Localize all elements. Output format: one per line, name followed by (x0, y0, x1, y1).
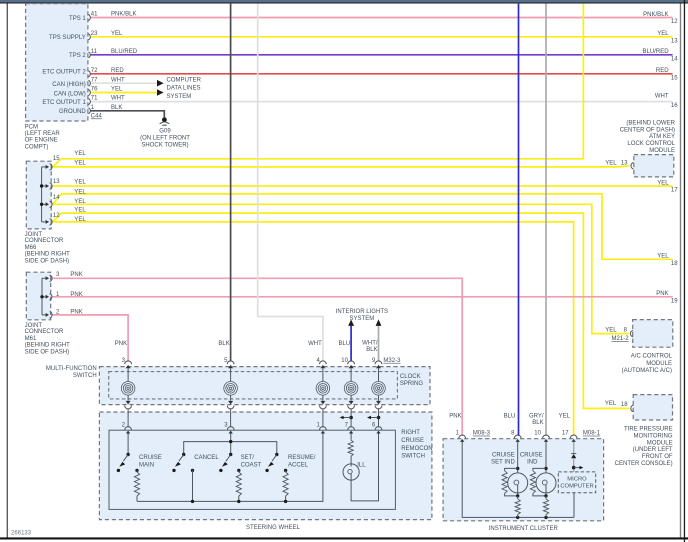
svg-text:YEL: YEL (74, 207, 86, 213)
svg-text:(AUTOMATIC A/C): (AUTOMATIC A/C) (622, 368, 672, 374)
M61 pin 1 (46, 294, 52, 300)
micro computer box (558, 472, 595, 493)
svg-text:RED: RED (656, 68, 669, 74)
svg-text:RIGHT: RIGHT (401, 430, 420, 436)
svg-text:PNK: PNK (70, 292, 82, 298)
svg-text:CRUISE: CRUISE (139, 455, 162, 461)
svg-text:BLU/RED: BLU/RED (111, 49, 138, 55)
svg-text:ACCEL: ACCEL (288, 462, 309, 468)
svg-text:YEL: YEL (111, 87, 123, 93)
remocon pin numbers (122, 423, 376, 429)
lamp CRUISE SET IND with parallel resistor (502, 442, 528, 498)
cluster wire colour labels (449, 414, 570, 427)
MFS wire colour labels (115, 340, 378, 353)
svg-text:WHT: WHT (308, 341, 322, 347)
svg-text:TPS 1: TPS 1 (69, 16, 86, 22)
wire PCM-76 CAN LOW YEL to data-lines arrow (91, 92, 157, 94)
label right cruise remocon switch (401, 430, 432, 460)
remocon switch inner solid box (109, 430, 395, 509)
svg-text:REMOCON: REMOCON (401, 446, 432, 452)
svg-text:14: 14 (53, 195, 60, 201)
wire pin2 feed (127, 434, 129, 454)
clock spring lower connector pins (125, 401, 382, 428)
arrow BLU to interior lights system (348, 319, 354, 326)
svg-text:ATM KEY: ATM KEY (649, 134, 675, 140)
svg-text:(ON LEFT FRONT: (ON LEFT FRONT (140, 136, 190, 142)
M66 pin 13 (46, 183, 52, 189)
svg-text:YEL: YEL (74, 217, 86, 223)
resistor resume/accel (283, 469, 288, 502)
tire pressure module pin 18 socket (631, 405, 634, 412)
svg-text:BLK: BLK (366, 347, 377, 353)
M66 pin numbers (53, 156, 60, 219)
ground G09 (160, 117, 170, 125)
svg-text:RED: RED (111, 68, 124, 74)
right cruise remocon switch outer box (99, 412, 432, 520)
wire M66-12a YEL to tire pressure module pin 18 (53, 213, 630, 408)
MFS connector M32-3 sockets (pins 3,5,4,10,9) (125, 361, 382, 368)
svg-text:YEL: YEL (605, 160, 617, 166)
svg-text:17: 17 (671, 188, 678, 194)
svg-text:RESUME/: RESUME/ (288, 455, 316, 461)
svg-text:TIRE PRESSURE: TIRE PRESSURE (624, 427, 673, 433)
wire M61-1 PNK to edge 19 (53, 296, 673, 298)
svg-text:BLU: BLU (504, 414, 516, 420)
label micro computer (560, 476, 593, 489)
wire GRY/BLK from top edge to instrument cluster pin 10 (545, 4, 547, 436)
svg-text:C44: C44 (91, 114, 103, 120)
svg-text:PNK: PNK (115, 341, 127, 347)
wire PCM-23 TPS SUPPLY YEL to edge 13 (91, 36, 673, 38)
svg-text:CENTER CONSOLE): CENTER CONSOLE) (615, 461, 673, 467)
A/C module pin 8 socket (631, 330, 634, 337)
wire PCM-71 ETC OUTPUT1 WHT to edge 16 (91, 101, 673, 103)
svg-text:M61: M61 (25, 336, 37, 342)
label YEL 8 M21-2 at A/C module (605, 327, 629, 342)
wire PCM-1 GROUND BLK to G09 (91, 111, 165, 117)
joint connector M66 internal bus (40, 167, 46, 222)
svg-text:DATA LINES: DATA LINES (167, 86, 201, 92)
svg-text:SYSTEM: SYSTEM (350, 316, 375, 322)
svg-text:YEL: YEL (657, 180, 669, 186)
svg-text:PCM: PCM (25, 124, 38, 130)
svg-text:YEL: YEL (657, 31, 669, 37)
svg-text:76: 76 (91, 87, 98, 93)
M66 pin 15 (46, 164, 52, 170)
M66 wire colour labels YEL (74, 151, 86, 223)
switch CANCEL (172, 453, 185, 472)
resistor below CRUISE IND (543, 496, 548, 518)
PCM pin name labels (42, 16, 86, 115)
svg-text:WHT: WHT (655, 93, 669, 99)
svg-text:CRUISE: CRUISE (520, 452, 543, 458)
svg-text:M66: M66 (25, 245, 37, 251)
svg-text:A/C CONTROL: A/C CONTROL (631, 353, 673, 359)
svg-text:YEL: YEL (74, 160, 86, 166)
svg-text:PNK: PNK (70, 309, 82, 315)
svg-text:SIDE OF DASH): SIDE OF DASH) (25, 259, 70, 265)
svg-text:IND: IND (527, 459, 538, 465)
multi-function switch outer box (99, 367, 430, 405)
svg-text:72: 72 (91, 68, 98, 74)
svg-text:YEL: YEL (74, 189, 86, 195)
label resume/accel (288, 455, 316, 468)
clock spring coil pin5 (224, 382, 238, 396)
svg-text:ETC OUTPUT 2: ETC OUTPUT 2 (42, 70, 86, 76)
svg-text:MONITORING: MONITORING (634, 434, 673, 440)
svg-text:SET IND: SET IND (491, 459, 515, 465)
label PCM location (25, 124, 61, 150)
clock spring wires lower (128, 395, 378, 401)
svg-text:CONNECTOR: CONNECTOR (25, 238, 64, 244)
svg-text:17: 17 (562, 431, 569, 437)
svg-text:SHOCK TOWER): SHOCK TOWER) (141, 143, 188, 149)
PCM pin sockets C44 (88, 15, 90, 114)
wire pin3 feed (230, 434, 232, 454)
node ILL feed junction pin 6 with option arrow (367, 416, 380, 420)
svg-text:SPRING: SPRING (400, 381, 423, 387)
svg-text:(BEHIND LOWER: (BEHIND LOWER (626, 120, 675, 126)
svg-text:TPS 2: TPS 2 (69, 53, 86, 59)
svg-text:12: 12 (53, 213, 60, 219)
joint connector M61 box (26, 272, 50, 320)
svg-text:12: 12 (671, 19, 678, 25)
svg-text:YEL: YEL (605, 401, 617, 407)
label A/C control module (622, 353, 673, 374)
svg-text:WHT/: WHT/ (362, 340, 378, 346)
svg-text:CONNECTOR: CONNECTOR (25, 329, 64, 335)
label computer data lines system (167, 77, 202, 100)
label cruise main (139, 455, 162, 468)
svg-text:13: 13 (671, 38, 678, 44)
wire BLU from interior lights arrow to multi-function switch pin 10 (350, 326, 352, 362)
M61 pin 2 (46, 312, 52, 318)
switch SET/COAST (219, 453, 232, 472)
diode at cluster pin 17 (571, 442, 576, 472)
svg-text:13: 13 (621, 160, 628, 166)
svg-text:CRUISE: CRUISE (492, 452, 515, 458)
svg-text:INSTRUMENT CLUSTER: INSTRUMENT CLUSTER (489, 526, 559, 532)
svg-text:COMPUTER: COMPUTER (560, 484, 593, 490)
svg-text:ETC OUTPUT 1: ETC OUTPUT 1 (42, 100, 86, 106)
resistor ILL (348, 434, 353, 457)
svg-text:71: 71 (91, 96, 98, 102)
joint connector M61 internal bus (40, 278, 45, 315)
svg-text:BLK: BLK (532, 420, 543, 426)
node bus junctions (516, 516, 548, 519)
switch CRUISE MAIN (117, 453, 130, 472)
wire WHT/BLK from interior lights arrow to multi-function switch pin 9 (378, 326, 380, 362)
svg-text:LOCK CONTROL: LOCK CONTROL (627, 141, 675, 147)
svg-text:OF ENGINE: OF ENGINE (25, 138, 58, 144)
svg-text:BLK: BLK (111, 105, 122, 111)
wire PCM-72 ETC OUTPUT2 RED to edge 15 (91, 73, 673, 75)
joint connector M66 box (26, 161, 51, 229)
wire M66-12b YEL to instrument cluster pin 17 (53, 222, 574, 436)
svg-text:YEL: YEL (74, 180, 86, 186)
label interior lights system (336, 309, 388, 322)
svg-text:WHT: WHT (111, 96, 125, 102)
wire WHT from top edge to multi-function switch pin 4 (258, 4, 323, 362)
svg-text:(LEFT REAR: (LEFT REAR (25, 131, 61, 137)
wire PCM-11 TPS2 BLU/RED to edge 14 (91, 54, 673, 56)
svg-text:YEL: YEL (111, 31, 123, 37)
svg-text:15: 15 (53, 156, 60, 162)
svg-text:11: 11 (91, 49, 98, 55)
PCM C44 connector box (26, 4, 88, 121)
wire M66-15a YEL up to top edge (53, 4, 584, 167)
ATM key lock control module box (634, 155, 674, 177)
wire PCM-41 TPS1 PNK/BLK to edge 12 (91, 17, 673, 19)
svg-text:(UNDER LEFT: (UNDER LEFT (633, 447, 673, 453)
arrow WHT/BLK to interior lights system (376, 319, 382, 326)
label set/coast (241, 455, 262, 468)
wire BLK from top edge to multi-function switch pin 5 (230, 4, 232, 362)
svg-text:COAST: COAST (241, 462, 262, 468)
svg-text:SET/: SET/ (241, 455, 255, 461)
resistor cruise main (134, 469, 139, 502)
clock spring coil pin3 (121, 382, 135, 396)
svg-text:MICRO: MICRO (567, 476, 587, 482)
svg-text:41: 41 (91, 12, 98, 18)
svg-text:77: 77 (91, 77, 98, 83)
svg-text:PNK/BLK: PNK/BLK (111, 12, 137, 18)
instrument cluster box (443, 439, 603, 521)
svg-text:CANCEL: CANCEL (194, 455, 219, 461)
wire cancel/resume feed bus (184, 440, 277, 453)
label cruise set ind (491, 452, 515, 465)
svg-text:YEL: YEL (74, 151, 86, 157)
svg-text:ILL: ILL (357, 463, 366, 469)
svg-text:YEL: YEL (657, 253, 669, 259)
svg-text:M08-1: M08-1 (583, 431, 601, 437)
svg-text:SWITCH: SWITCH (401, 454, 425, 460)
svg-text:CRUISE: CRUISE (401, 438, 424, 444)
instrument cluster connector sockets (pins 1,8,10,17) (459, 435, 577, 442)
svg-text:14: 14 (671, 56, 678, 62)
ATM key module pin 13 socket (631, 163, 634, 170)
svg-text:GRY/: GRY/ (529, 414, 544, 420)
svg-text:MULTI-FUNCTION: MULTI-FUNCTION (46, 366, 97, 372)
svg-text:SWITCH: SWITCH (73, 373, 97, 379)
wire M61-3 PNK to instrument cluster pin 1 (53, 278, 463, 436)
label ATM key lock control module (620, 120, 676, 154)
svg-text:COMPUTER: COMPUTER (167, 77, 202, 83)
wire M66-14b YEL to A/C module pin 8 (53, 204, 629, 333)
clock spring coil pin9 (372, 382, 386, 396)
svg-text:23: 23 (91, 31, 98, 37)
wire M66-14a YEL to edge 18 (53, 194, 673, 259)
PCM pin numbers (91, 12, 103, 120)
arrow CAN HIGH to computer data lines (157, 80, 164, 87)
svg-text:M32-3: M32-3 (383, 358, 401, 364)
svg-text:19: 19 (671, 298, 678, 304)
clock spring coil pin10 (344, 382, 358, 396)
label joint connector M66 (25, 232, 71, 265)
remocon switch connector sockets (pins 2,3,1,7,6) (125, 427, 382, 434)
svg-text:PNK: PNK (449, 414, 461, 420)
svg-text:MODULE: MODULE (649, 148, 675, 154)
resistor below CRUISE SET IND (515, 496, 520, 518)
clock spring wires upper (128, 368, 378, 381)
wire cancel output (191, 469, 194, 502)
M66 pin 12 (46, 219, 52, 225)
wire micro computer to bottom bus (573, 493, 575, 518)
M66 pin 14 (46, 201, 52, 207)
svg-text:18: 18 (671, 261, 678, 267)
svg-text:PNK: PNK (70, 272, 82, 278)
A/C control module box (633, 320, 673, 348)
cluster pin numbers and connectors M08-3 M08-1 (456, 431, 601, 437)
wire M66-13 YEL to edge 17 (53, 185, 673, 187)
svg-text:18: 18 (621, 402, 628, 408)
resistor set/coast (236, 469, 241, 502)
M61 pin 3 (46, 275, 52, 281)
label YEL 13 at ATM key module (605, 160, 628, 166)
svg-text:CLOCK: CLOCK (400, 374, 421, 380)
node ILL feed junction pin 7 with option arrow (340, 416, 353, 420)
arrow CAN LOW to computer data lines (157, 89, 164, 96)
svg-text:G09: G09 (159, 128, 171, 134)
svg-text:STEERING WHEEL: STEERING WHEEL (246, 525, 301, 531)
label clock spring (400, 374, 423, 387)
M61 pin numbers (56, 272, 60, 315)
wire ILL return to pin 6 (351, 434, 378, 501)
svg-text:FRONT OF: FRONT OF (642, 454, 673, 460)
svg-text:YEL: YEL (605, 327, 617, 333)
svg-text:TPS SUPPLY: TPS SUPPLY (49, 35, 86, 41)
svg-text:WHT: WHT (111, 77, 125, 83)
svg-text:PNK: PNK (656, 291, 668, 297)
wire remocon bottom bus to pin 1 (137, 434, 323, 504)
svg-text:266133: 266133 (11, 531, 32, 537)
svg-text:INTERIOR LIGHTS: INTERIOR LIGHTS (336, 309, 388, 315)
wire M66-15b YEL to ATM key module pin 13 (53, 166, 630, 167)
label joint connector M61 (25, 323, 71, 356)
svg-text:BLU/RED: BLU/RED (642, 49, 669, 55)
MFS pin numbers and connector M32-3 (122, 358, 402, 364)
wire BLU from top edge to instrument cluster pin 8 (518, 4, 520, 436)
svg-text:COMPT): COMPT) (25, 144, 49, 150)
label tire pressure monitoring module (615, 427, 673, 468)
lamp ILL (343, 457, 359, 481)
PCM wire colour labels (111, 12, 138, 111)
svg-text:SIDE OF DASH): SIDE OF DASH) (25, 350, 70, 356)
svg-text:(BEHIND RIGHT: (BEHIND RIGHT (25, 343, 71, 349)
label G09 ground (140, 128, 190, 148)
wire cluster pin1 to bottom bus (462, 442, 574, 518)
svg-text:M08-3: M08-3 (473, 431, 491, 437)
edge labels right side (642, 12, 678, 305)
wire PCM-77 CAN HIGH WHT to data-lines arrow (91, 82, 157, 84)
svg-text:MAIN: MAIN (139, 462, 154, 468)
svg-text:SYSTEM: SYSTEM (167, 94, 192, 100)
label YEL 18 at tire pressure module (605, 401, 628, 408)
svg-text:MODULE: MODULE (646, 361, 672, 367)
svg-text:YEL: YEL (559, 414, 571, 420)
svg-text:(BEHIND RIGHT: (BEHIND RIGHT (25, 252, 71, 258)
svg-text:10: 10 (341, 358, 348, 364)
node micro computer input junction with arrow (572, 466, 583, 470)
svg-text:MODULE: MODULE (647, 440, 673, 446)
svg-text:BLU: BLU (338, 341, 350, 347)
svg-text:GROUND: GROUND (59, 109, 86, 115)
svg-text:YEL: YEL (74, 199, 86, 205)
svg-text:CAN (LOW): CAN (LOW) (54, 91, 86, 97)
svg-text:CENTER OF DASH): CENTER OF DASH) (620, 127, 675, 133)
svg-text:16: 16 (671, 103, 678, 109)
svg-text:10: 10 (534, 431, 541, 437)
clock spring coil pin4 (316, 382, 330, 396)
svg-text:PNK/BLK: PNK/BLK (643, 12, 669, 18)
svg-text:BLK: BLK (218, 341, 229, 347)
svg-text:15: 15 (671, 75, 678, 81)
M61 wire colour labels PNK (70, 272, 82, 315)
clock spring inner box (109, 372, 398, 399)
switch RESUME/ACCEL (265, 453, 278, 472)
label cruise ind (520, 452, 543, 465)
lamp CRUISE IND with parallel resistor (530, 442, 556, 498)
wire M61-2 PNK to multi-function switch pin 3 (53, 315, 129, 362)
svg-text:M21-2: M21-2 (612, 336, 630, 342)
svg-text:CAN (HIGH): CAN (HIGH) (52, 82, 86, 88)
tire pressure monitoring module box (633, 395, 672, 420)
svg-text:13: 13 (53, 179, 60, 185)
label multi-function switch (46, 366, 97, 379)
